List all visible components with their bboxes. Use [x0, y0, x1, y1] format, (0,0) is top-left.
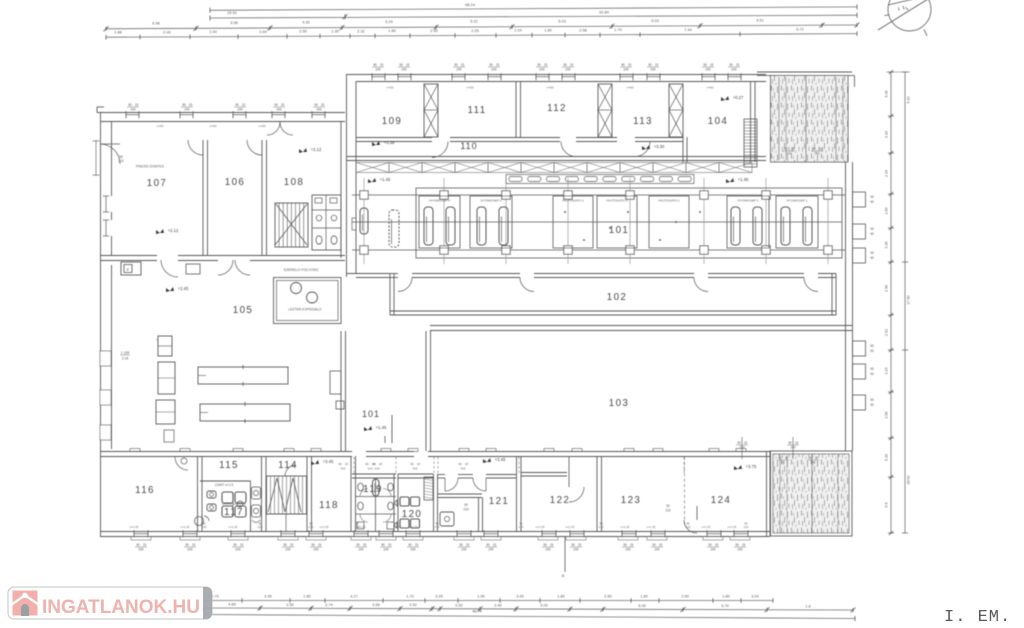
svg-text:90: 90: [781, 461, 785, 465]
svg-text:90: 90: [136, 543, 140, 547]
svg-text:240: 240: [237, 108, 243, 112]
svg-text:5.00: 5.00: [638, 604, 645, 608]
svg-text:15: 15: [380, 63, 384, 67]
svg-text:5.00: 5.00: [540, 604, 547, 608]
svg-text:240: 240: [488, 548, 494, 552]
svg-text:90: 90: [356, 543, 360, 547]
svg-text:240: 240: [786, 152, 792, 156]
room 103 left wall / corridor right wall: [425, 331, 427, 451]
svg-text:15: 15: [744, 441, 748, 445]
svg-text:210: 210: [665, 509, 671, 513]
svg-text:15: 15: [655, 63, 659, 67]
partition 111/112: [515, 82, 517, 137]
door 114 top: [285, 465, 296, 476]
column boxes right of hall 101: [853, 192, 866, 207]
svg-text:48.74: 48.74: [472, 610, 482, 614]
svg-text:15: 15: [345, 462, 349, 466]
room 117 chairs: [207, 491, 216, 498]
svg-text:90: 90: [283, 543, 287, 547]
svg-text:104: 104: [708, 116, 729, 127]
svg-text:28.62: 28.62: [907, 476, 911, 485]
pillar with X between 109 and 111: [424, 84, 438, 137]
dimension top segments line: [106, 25, 857, 29]
flag +3.30: [642, 145, 650, 150]
svg-text:+2.45: +2.45: [178, 286, 189, 291]
level flag +2.12 near 108: [299, 148, 307, 153]
svg-text:2.18: 2.18: [122, 357, 129, 361]
svg-text:101: 101: [609, 225, 630, 236]
svg-text:90: 90: [870, 403, 874, 407]
top band top wall: [346, 74, 766, 76]
room 122 interior partition: [521, 472, 567, 474]
svg-text:15: 15: [710, 63, 714, 67]
svg-text:15: 15: [791, 147, 795, 151]
column boxes right of 103: [853, 341, 866, 356]
corridor jog wall: [391, 415, 393, 443]
svg-text:118: 118: [319, 500, 339, 511]
partition 124/hatch block: [766, 451, 768, 536]
svg-text:105: 105: [233, 305, 254, 316]
svg-text:NYOMOGEP 2: NYOMOGEP 2: [738, 199, 759, 203]
svg-text:90: 90: [311, 543, 315, 547]
svg-text:n=1.25: n=1.25: [647, 525, 656, 529]
svg-text:210: 210: [435, 525, 440, 529]
svg-text:3.25: 3.25: [435, 594, 442, 598]
svg-text:240: 240: [401, 68, 407, 72]
svg-text:210: 210: [519, 525, 524, 529]
svg-text:110: 110: [460, 141, 477, 151]
dimension top total line 48.14: [210, 7, 857, 10]
svg-text:48.14: 48.14: [465, 2, 476, 7]
svg-text:15: 15: [318, 543, 322, 547]
svg-text:1.90: 1.90: [885, 285, 889, 292]
svg-text:240: 240: [705, 68, 711, 72]
svg-text:15: 15: [628, 63, 632, 67]
svg-text:240: 240: [810, 461, 816, 465]
svg-text:90: 90: [563, 63, 567, 67]
svg-text:90: 90: [648, 63, 652, 67]
svg-text:2.40: 2.40: [494, 604, 501, 608]
svg-text:240: 240: [316, 108, 322, 112]
svg-text:+1.45: +1.45: [376, 425, 387, 430]
svg-text:2.55: 2.55: [299, 30, 306, 34]
svg-text:15: 15: [415, 543, 419, 547]
svg-text:5.9: 5.9: [885, 503, 889, 508]
logo house icon: [13, 591, 38, 616]
window sills below bottom band wall: [131, 537, 151, 541]
svg-text:90: 90: [870, 349, 874, 353]
svg-text:124: 124: [711, 495, 732, 506]
room 102 right wall: [831, 274, 833, 316]
dimension bottom total line 48.74: [205, 615, 855, 619]
svg-text:I. EM.: I. EM.: [944, 608, 1011, 627]
svg-text:PINCED DONTES: PINCED DONTES: [136, 165, 165, 169]
svg-text:90: 90: [870, 398, 874, 402]
room 117 box walls: [200, 480, 251, 482]
pillar with X between 113 and 104: [669, 84, 683, 137]
svg-text:90: 90: [623, 543, 627, 547]
svg-text:15: 15: [630, 543, 634, 547]
svg-text:240: 240: [539, 68, 545, 72]
svg-text:240: 240: [358, 548, 364, 552]
svg-text:5.70: 5.70: [721, 604, 728, 608]
toilet stall arcs 119: [360, 489, 368, 497]
svg-text:15.91: 15.91: [227, 10, 238, 15]
svg-text:1.80: 1.80: [722, 594, 729, 598]
svg-text:90: 90: [708, 543, 712, 547]
svg-text:240: 240: [456, 68, 462, 72]
left block bottom wall: [100, 255, 157, 257]
svg-text:15: 15: [785, 456, 789, 460]
svg-text:2.52: 2.52: [455, 603, 462, 607]
svg-text:90: 90: [870, 372, 874, 376]
toilet room right of stairs 108: [312, 195, 341, 250]
lezer box: [274, 278, 342, 324]
svg-text:240: 240: [573, 548, 579, 552]
svg-text:240: 240: [285, 548, 291, 552]
svg-text:+0.27: +0.27: [733, 95, 744, 100]
svg-text:90: 90: [737, 441, 741, 445]
svg-text:2.52: 2.52: [409, 603, 416, 607]
left outer wall: [100, 112, 102, 537]
svg-text:90: 90: [399, 63, 403, 67]
lezer circles: [291, 283, 302, 294]
room 117 table group: [222, 492, 233, 503]
svg-text:15: 15: [659, 543, 663, 547]
svg-text:107: 107: [147, 178, 168, 189]
svg-text:240: 240: [737, 548, 743, 552]
svg-text:90: 90: [454, 63, 458, 67]
room 120 tables: [400, 497, 409, 506]
svg-text:1.85: 1.85: [303, 594, 310, 598]
svg-text:n=90: n=90: [547, 86, 554, 90]
svg-text:90: 90: [870, 200, 874, 204]
svg-text:90: 90: [870, 195, 874, 199]
svg-text:90: 90: [408, 543, 412, 547]
svg-text:210: 210: [367, 467, 372, 471]
svg-text:210: 210: [374, 467, 379, 471]
partition 114/118: [306, 456, 308, 531]
svg-text:109: 109: [382, 116, 403, 127]
right wall of building upper: [845, 162, 847, 451]
svg-text:240: 240: [138, 548, 144, 552]
svg-text:15: 15: [466, 543, 470, 547]
dim stubs above 124: [741, 437, 743, 459]
svg-text:90: 90: [870, 344, 874, 348]
svg-text:90: 90: [365, 462, 369, 466]
svg-text:15: 15: [363, 543, 367, 547]
svg-text:4.89: 4.89: [228, 603, 235, 607]
svg-text:90: 90: [410, 462, 414, 466]
top band left wall: [346, 75, 348, 278]
svg-text:HAJTOGATO 2: HAJTOGATO 2: [606, 199, 627, 203]
svg-text:210: 210: [463, 508, 469, 512]
dangling line below 122: [564, 537, 566, 572]
svg-text:5.72: 5.72: [796, 27, 803, 31]
svg-text:15: 15: [742, 543, 746, 547]
svg-text:2.50: 2.50: [885, 412, 889, 419]
svg-text:240: 240: [739, 446, 745, 450]
svg-text:n=1.25: n=1.25: [621, 525, 630, 529]
svg-text:240: 240: [654, 548, 660, 552]
svg-text:90: 90: [235, 103, 239, 107]
svg-text:240: 240: [461, 548, 467, 552]
door arc 115: [175, 457, 188, 470]
svg-text:90: 90: [808, 456, 812, 460]
dashed connecting lines: [353, 457, 355, 474]
svg-text:2.50: 2.50: [604, 594, 611, 598]
svg-text:210: 210: [258, 525, 263, 529]
hall 101 column axes and squares: [363, 178, 365, 264]
svg-text:90: 90: [870, 367, 874, 371]
dimension right vertical lines: [890, 72, 892, 533]
svg-text:210: 210: [412, 467, 417, 471]
bottom band top wall: [100, 451, 352, 453]
room 104 left wall: [682, 137, 684, 162]
partition 116/115: [197, 456, 199, 531]
svg-text:101: 101: [362, 409, 380, 419]
svg-text:n=90: n=90: [467, 86, 474, 90]
svg-text:103: 103: [609, 398, 630, 409]
left wall windows of room 107: [103, 195, 109, 197]
svg-text:15: 15: [496, 63, 500, 67]
svg-text:2.45: 2.45: [430, 29, 437, 33]
svg-text:2.40: 2.40: [163, 30, 170, 34]
svg-text:3.98: 3.98: [230, 21, 237, 25]
svg-text:90: 90: [870, 232, 874, 236]
svg-text:1.88: 1.88: [114, 31, 121, 35]
svg-text:90: 90: [128, 103, 132, 107]
svg-text:102: 102: [607, 292, 628, 303]
svg-text:1.60: 1.60: [885, 208, 889, 215]
svg-text:SZERELO FOLYOSO: SZERELO FOLYOSO: [284, 268, 319, 272]
svg-text:7.44: 7.44: [684, 28, 691, 32]
svg-text:15: 15: [493, 543, 497, 547]
svg-text:90: 90: [621, 63, 625, 67]
svg-text:15: 15: [461, 63, 465, 67]
north arrow symbol: [888, 0, 931, 31]
svg-text:+1.45: +1.45: [380, 177, 391, 182]
svg-text:90: 90: [459, 543, 463, 547]
glazing strip with X pattern below corridor 110: [356, 163, 752, 173]
svg-text:90: 90: [314, 103, 318, 107]
svg-text:210: 210: [309, 525, 314, 529]
left wall window sills 105: [100, 351, 111, 366]
flag +2.45 in 105: [166, 287, 174, 292]
small box F near 105 top-left: [121, 262, 141, 275]
dashed partition 123/124: [684, 457, 686, 527]
partition 118/119: [350, 456, 352, 531]
svg-text:90: 90: [870, 256, 874, 260]
svg-text:15: 15: [465, 462, 469, 466]
door arcs into corridor 110: [432, 142, 448, 158]
svg-text:+2.12: +2.12: [168, 228, 179, 233]
svg-text:15: 15: [550, 543, 554, 547]
room 103 top wall: [430, 325, 852, 327]
room 121 top wall with door gaps: [438, 474, 445, 476]
svg-text:2.32: 2.32: [357, 29, 364, 33]
svg-text:n=90: n=90: [627, 86, 634, 90]
room 120 cabinet hatched: [424, 477, 433, 500]
small left bracket of hall: [352, 217, 356, 219]
windows top band wall: [371, 73, 373, 80]
svg-text:15: 15: [135, 103, 139, 107]
svg-text:15: 15: [715, 543, 719, 547]
svg-text:15: 15: [736, 63, 740, 67]
dimension bottom segments line: [205, 600, 773, 602]
svg-text:5.16: 5.16: [885, 454, 889, 461]
svg-text:+2.12: +2.12: [311, 147, 322, 152]
svg-text:15: 15: [570, 63, 574, 67]
svg-text:240: 240: [731, 68, 737, 72]
svg-text:15: 15: [544, 63, 548, 67]
svg-text:n=1.25: n=1.25: [536, 525, 545, 529]
door arcs room 102: [398, 278, 412, 292]
svg-text:n=90: n=90: [707, 86, 714, 90]
svg-text:210: 210: [395, 525, 400, 529]
svg-text:+3.75: +3.75: [746, 464, 757, 469]
svg-text:n=1.25: n=1.25: [229, 525, 238, 529]
left wall window ticks: [95, 140, 97, 176]
flag +1.45 right: [726, 178, 734, 183]
svg-text:n=1.25: n=1.25: [357, 525, 366, 529]
svg-text:I: I: [157, 338, 158, 342]
svg-text:119: 119: [363, 484, 383, 495]
svg-text:6.98: 6.98: [152, 21, 159, 25]
svg-text:15: 15: [281, 103, 285, 107]
dimension bottom sub-segments line: [205, 608, 853, 610]
svg-text:210: 210: [686, 525, 691, 529]
flag +3.38: [372, 141, 380, 146]
svg-text:240: 240: [313, 548, 319, 552]
svg-text:90: 90: [274, 103, 278, 107]
svg-text:n=1.25: n=1.25: [320, 525, 329, 529]
svg-text:3.35: 3.35: [885, 242, 889, 249]
svg-text:4.51: 4.51: [756, 18, 763, 22]
svg-text:5.03: 5.03: [651, 19, 658, 23]
partition 114 left: [261, 456, 263, 531]
svg-text:5.22: 5.22: [470, 20, 477, 24]
svg-text:1.159: 1.159: [121, 351, 130, 355]
svg-text:2.44: 2.44: [209, 30, 216, 34]
svg-text:210: 210: [744, 525, 749, 529]
svg-text:240: 240: [625, 548, 631, 552]
svg-text:4.27: 4.27: [350, 594, 357, 598]
svg-text:n=1.25: n=1.25: [181, 525, 190, 529]
svg-text:5.29: 5.29: [385, 20, 392, 24]
svg-text:15: 15: [321, 103, 325, 107]
svg-text:90: 90: [870, 251, 874, 255]
svg-text:240: 240: [650, 68, 656, 72]
rooms bottom wall above corridor 110: [356, 137, 432, 139]
svg-text:n=90: n=90: [259, 124, 266, 128]
corridor 101 left wall: [340, 331, 342, 451]
svg-text:1.04: 1.04: [514, 29, 521, 33]
svg-text:15: 15: [189, 103, 193, 107]
window slot strip above hall 101: [506, 175, 694, 184]
svg-text:2.74: 2.74: [325, 603, 332, 607]
svg-text:15: 15: [578, 543, 582, 547]
svg-text:32.80: 32.80: [599, 9, 610, 14]
svg-text:1.80: 1.80: [388, 29, 395, 33]
svg-text:210: 210: [118, 159, 124, 163]
room 105 tables: [198, 367, 288, 384]
hall 101 mid rail: [352, 221, 842, 223]
svg-text:1.35: 1.35: [331, 30, 338, 34]
svg-text:HAJTOGATO 3: HAJTOGATO 3: [562, 199, 583, 203]
partition 120/121: [433, 474, 435, 531]
ingatlanok.hu watermark logo: [8, 587, 212, 619]
svg-text:210: 210: [599, 525, 604, 529]
svg-text:5.10: 5.10: [907, 97, 911, 104]
entrance door arc top-left: [100, 144, 120, 164]
svg-text:90: 90: [182, 103, 186, 107]
svg-text:n=90: n=90: [210, 124, 217, 128]
svg-text:3.10: 3.10: [885, 131, 889, 138]
window bumps above bottom band wall: [130, 449, 140, 452]
svg-text:15: 15: [795, 441, 799, 445]
svg-text:114: 114: [278, 460, 298, 471]
level flag +2.12 room 107: [156, 229, 164, 234]
partition 121/122: [516, 456, 518, 531]
svg-text:240: 240: [710, 548, 716, 552]
flag +0.27 in 104: [721, 96, 729, 101]
partition 119/120: [393, 474, 395, 531]
svg-text:240: 240: [790, 446, 796, 450]
svg-text:90: 90: [652, 543, 656, 547]
dimension top sub-segments line: [106, 34, 857, 38]
room 102 top wall with door openings: [390, 273, 398, 275]
svg-text:112: 112: [547, 103, 567, 114]
svg-text:INGATLANOK.HU: INGATLANOK.HU: [42, 597, 200, 618]
svg-text:90: 90: [543, 543, 547, 547]
small marks in 105: [164, 430, 174, 442]
svg-text:n=1.25: n=1.25: [409, 525, 418, 529]
svg-text:240: 240: [184, 108, 190, 112]
svg-text:n=1.25: n=1.25: [728, 525, 737, 529]
svg-text:3.04: 3.04: [751, 594, 758, 598]
svg-text:90: 90: [571, 543, 575, 547]
room 108 right wall: [340, 122, 342, 258]
svg-text:115: 115: [219, 460, 239, 471]
svg-text:90: 90: [729, 63, 733, 67]
svg-text:2.64: 2.64: [259, 30, 266, 34]
svg-text:90: 90: [812, 147, 816, 151]
svg-text:2.25: 2.25: [471, 29, 478, 33]
stairs in room 108: [275, 203, 308, 247]
svg-text:1.80: 1.80: [640, 594, 647, 598]
svg-text:1.70: 1.70: [614, 28, 621, 32]
svg-text:+3.38: +3.38: [384, 140, 395, 145]
machine capsules: [360, 208, 368, 234]
hall 101 machine enclosure: [416, 188, 842, 258]
svg-text:106: 106: [225, 177, 246, 188]
svg-text:15: 15: [192, 543, 196, 547]
corridor 110 bottom wall: [346, 156, 766, 158]
partition 122/123: [596, 456, 598, 531]
svg-text:2.50: 2.50: [681, 594, 688, 598]
svg-text:210: 210: [202, 525, 207, 529]
svg-text:15: 15: [242, 103, 246, 107]
svg-text:90: 90: [233, 543, 237, 547]
svg-text:108: 108: [284, 177, 305, 188]
svg-text:240: 240: [814, 152, 820, 156]
svg-text:90: 90: [784, 147, 788, 151]
svg-text:90: 90: [458, 462, 462, 466]
svg-text:1.90: 1.90: [477, 594, 484, 598]
corridor wall left of 102: [346, 273, 390, 275]
windows on left block top wall: [125, 111, 127, 118]
